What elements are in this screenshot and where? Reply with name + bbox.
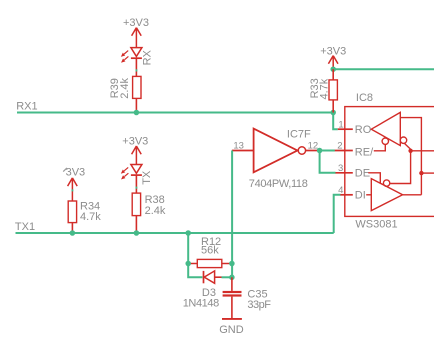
- svg-text:2.4k: 2.4k: [119, 78, 131, 99]
- resistor R33 body: [329, 80, 337, 100]
- wire R33 to RX1 net: [332, 100, 334, 113]
- resistor R12 pins: [188, 263, 232, 265]
- wire LED RX cathode to R39: [135, 58, 137, 76]
- svg-text:4.7k: 4.7k: [319, 78, 331, 99]
- junction net A: [419, 171, 423, 175]
- wire pin13 vertical net: [231, 151, 233, 278]
- svg-text:TX1: TX1: [15, 221, 35, 233]
- junction R12 right: [229, 261, 235, 267]
- svg-text:DI: DI: [355, 190, 366, 202]
- svg-text:RX: RX: [141, 49, 153, 65]
- pin RO line: [338, 128, 353, 130]
- wire output to pin RE: [320, 150, 335, 152]
- junction TX1/R34: [70, 230, 76, 236]
- receiver enable bubble (RE): [382, 138, 388, 144]
- capacitor C35 top lead: [231, 277, 233, 291]
- supply +3V3 arrow symbol (RX LED column): [132, 28, 142, 48]
- supply +3V3 arrow symbol (TX LED column): [132, 146, 142, 165]
- junction RX1/R39: [134, 110, 140, 116]
- resistor R34 body: [68, 201, 76, 223]
- wire R38 to TX1 net: [135, 216, 137, 233]
- receiver input route (net A): [400, 118, 421, 195]
- svg-text:RO: RO: [355, 124, 372, 136]
- svg-text:RX1: RX1: [16, 101, 37, 113]
- wire LED TX cathode to R38: [135, 175, 137, 193]
- junction inverter output: [317, 148, 323, 154]
- wire RX1 jog to pin RO: [333, 113, 338, 130]
- wire output to pin DE: [320, 151, 336, 173]
- junction TX1/R38: [134, 230, 140, 236]
- junction TX1/R12 branch: [185, 230, 191, 236]
- receiver inverting input bubble: [400, 137, 406, 143]
- resistor R38 body: [132, 193, 140, 216]
- driver output route: [403, 194, 422, 196]
- svg-text:3V3: 3V3: [66, 166, 86, 178]
- net A line to right edge: [421, 172, 434, 174]
- svg-text:WS3081: WS3081: [355, 219, 397, 231]
- LED RX diode symbol: [131, 48, 142, 59]
- inverter input pin line: [232, 150, 254, 152]
- svg-text:4.7k: 4.7k: [80, 211, 101, 223]
- tick mark before 3V3: [63, 168, 67, 172]
- net B line to right edge: [411, 150, 434, 152]
- supply +3V3 arrow symbol (R33 column): [328, 56, 338, 70]
- junction net B: [408, 149, 412, 153]
- supply arrow symbol (R34 column): [68, 178, 78, 201]
- diode D3 symbol: [204, 271, 222, 283]
- pin DE line: [335, 172, 353, 174]
- driver inverting output bubble: [383, 180, 389, 186]
- pin RE line: [334, 150, 353, 152]
- wire TX1 up to pin DI: [334, 195, 341, 233]
- op-amp inverter IC7F triangle: [254, 129, 298, 173]
- junction +3V3/R33: [330, 66, 336, 72]
- svg-text:+3V3: +3V3: [122, 136, 148, 148]
- svg-text:GND: GND: [219, 324, 244, 336]
- wire green stub above R34: [71, 189, 73, 191]
- DE internal route: [368, 173, 380, 183]
- svg-text:1N4148: 1N4148: [183, 297, 219, 309]
- svg-text:TX: TX: [141, 170, 153, 185]
- wire left branch vertical: [188, 233, 202, 277]
- wire TX1 horizontal net: [16, 232, 334, 234]
- receiver buffer triangle: [371, 112, 400, 145]
- wire +3V3 net to right edge: [333, 68, 434, 70]
- inverter output bubble: [298, 147, 305, 154]
- svg-text:2.4k: 2.4k: [145, 205, 166, 217]
- ground symbol: [222, 318, 242, 320]
- pin DI line: [340, 194, 353, 196]
- svg-text:DE: DE: [355, 168, 370, 180]
- svg-text:13: 13: [233, 141, 244, 152]
- wire green stub above R39: [135, 69, 137, 71]
- resistor R12 body: [197, 259, 222, 267]
- junction D3/C35: [229, 275, 235, 281]
- LED TX emission arrows: [121, 167, 128, 179]
- junction R12 left: [185, 261, 191, 267]
- wire +3V3 to R33: [332, 69, 334, 80]
- capacitor C35 bottom lead: [231, 297, 233, 319]
- LED TX diode symbol: [131, 165, 142, 176]
- svg-text:56k: 56k: [201, 245, 219, 257]
- IC8 box: [345, 107, 434, 217]
- driver buffer triangle: [371, 179, 402, 211]
- diagonal link bubble to net B: [404, 143, 410, 149]
- RE internal route: [374, 145, 386, 151]
- svg-text:33pF: 33pF: [247, 299, 271, 311]
- wire D3 to junction: [222, 276, 232, 278]
- wire R39 to RX1 net: [135, 98, 137, 112]
- svg-text:RE/: RE/: [355, 146, 374, 158]
- svg-text:IC8: IC8: [356, 92, 373, 104]
- wire RX1 horizontal net: [17, 112, 333, 114]
- svg-text:7404PW,118: 7404PW,118: [249, 178, 308, 190]
- LED RX emission arrows: [121, 51, 128, 63]
- capacitor C35 plates: [223, 291, 242, 293]
- junction RX1/R33: [330, 110, 336, 116]
- inverter output pin line: [306, 150, 320, 152]
- DI internal stub: [366, 194, 371, 196]
- wire green stub above R38: [135, 187, 137, 189]
- wire R34 to TX1 net: [71, 223, 73, 233]
- net B route to driver inverting output: [390, 151, 411, 184]
- svg-text:IC7F: IC7F: [287, 129, 311, 141]
- resistor R39 body: [133, 76, 141, 98]
